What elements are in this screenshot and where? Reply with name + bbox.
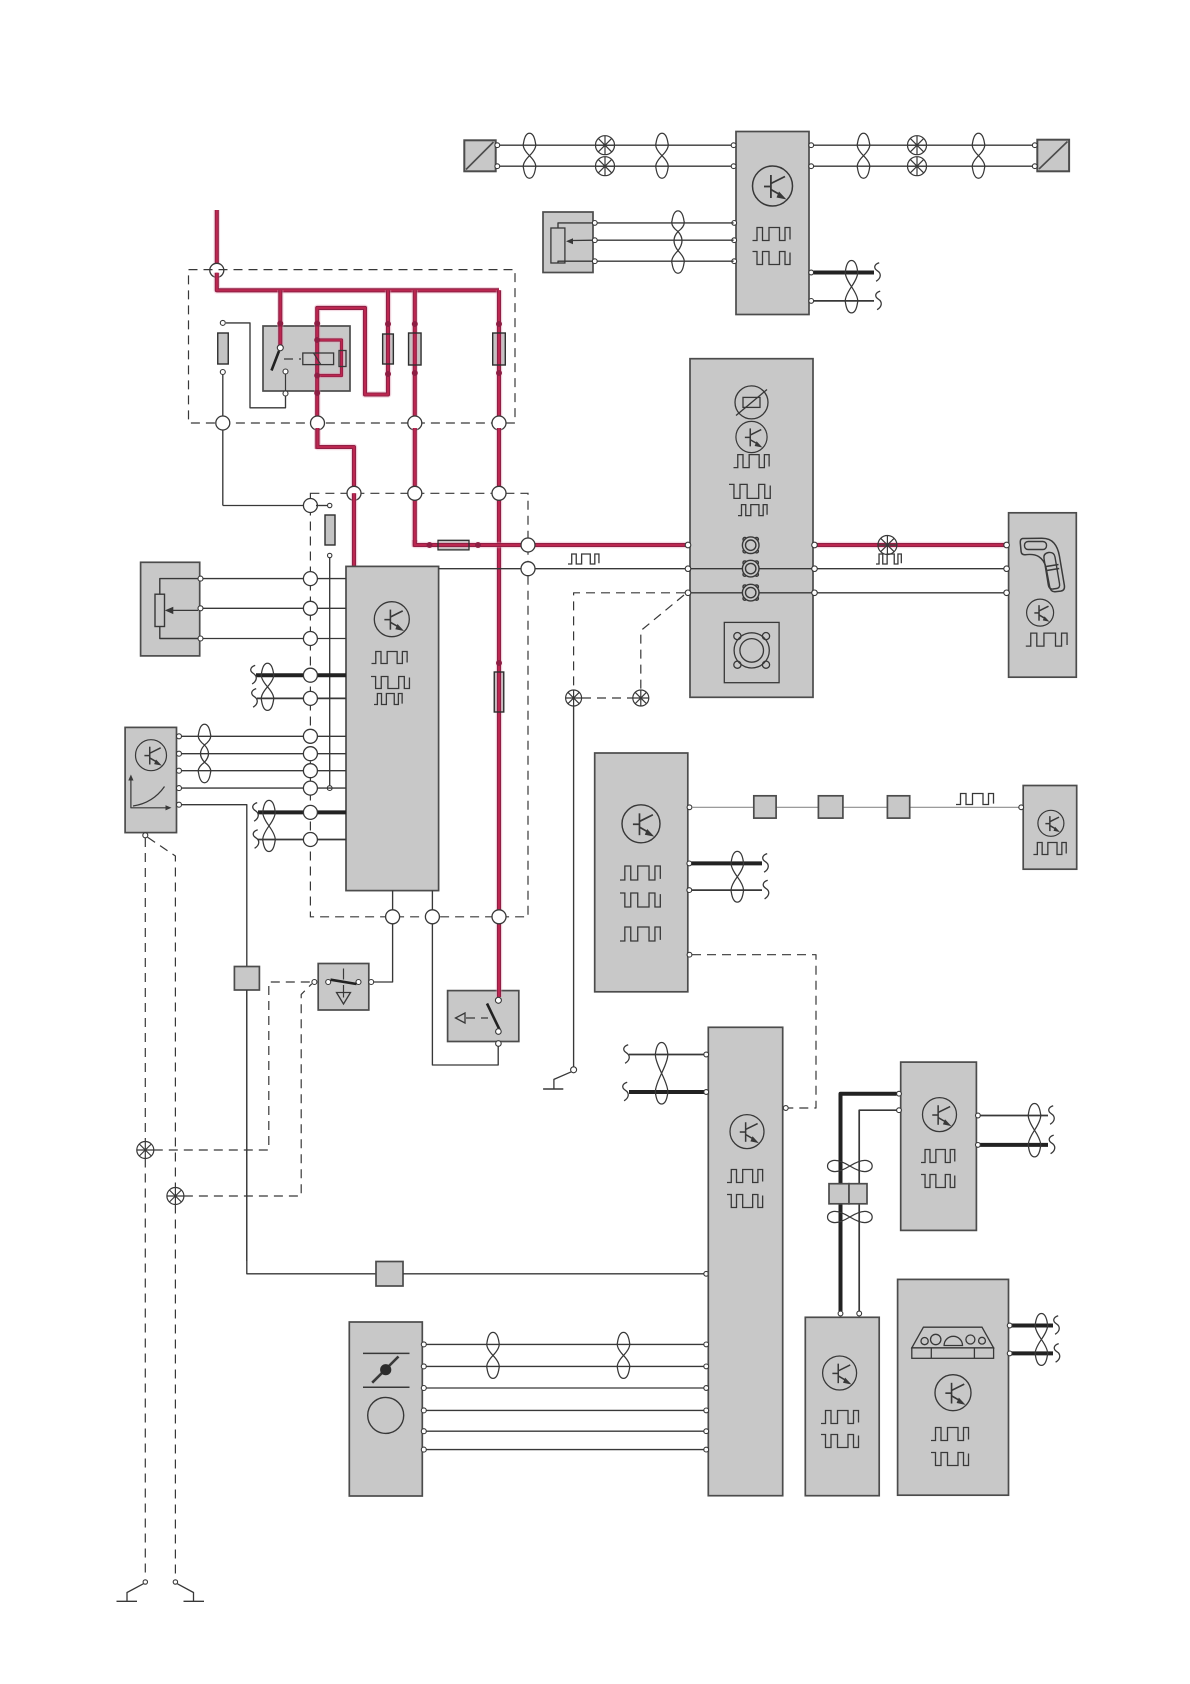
pins of M6 lower left: [704, 1342, 709, 1347]
potentiometer resistor of B1: [551, 228, 565, 263]
pulse train down of M6: [727, 1195, 763, 1208]
twisted-pair symbol: [655, 1043, 668, 1105]
three wires B2 to central module: [203, 578, 346, 580]
dashed branch from splice X3 to ground switch: [154, 982, 311, 1150]
node fuse F1 branch on harness left edge: [303, 499, 317, 513]
connector squares on signal wire: [754, 796, 776, 818]
central module bottom output 1: [392, 891, 394, 915]
cable break S: [623, 1082, 629, 1101]
top-left shield/antenna terminator square: [464, 140, 495, 171]
pins into M8: [838, 1311, 843, 1316]
pulse train 3 of central module: [374, 694, 402, 705]
transistor symbol of central module: [374, 602, 409, 637]
instrument cluster icon: [912, 1327, 994, 1358]
node harness bottom edge 1: [386, 910, 400, 924]
pulse train up of M7: [921, 1150, 955, 1163]
pulse train down of module A: [753, 252, 791, 265]
dashed wire M5 to rear module: [692, 955, 816, 1108]
fuse F4 on red branch: [493, 333, 506, 365]
node harness bottom edge red: [492, 910, 506, 924]
pulse train down of M9: [931, 1453, 969, 1466]
screened cable pair from module A lower right: [814, 271, 874, 275]
harness boundary box 2 (dashed): [310, 493, 528, 917]
screened pair M7 right: [979, 1115, 1048, 1117]
rear electronic module M6: [708, 1027, 782, 1495]
pins of left terminator: [495, 143, 500, 148]
lamp/splice symbol on red bus: [878, 536, 897, 555]
splice symbol X1: [566, 690, 582, 706]
cable break S: [253, 830, 259, 849]
wire node1 to ground switch S1: [374, 924, 393, 982]
control module A (top): [736, 132, 809, 315]
transistor symbol of module A: [753, 166, 793, 206]
pulse train up of M8: [821, 1411, 859, 1424]
battery feed red wire entering top: [214, 210, 221, 268]
pulse train 2 of audio module: [729, 484, 770, 498]
chassis ground 2: [173, 1580, 177, 1584]
inline fuse on red bus: [438, 540, 469, 550]
fuse F5: [325, 515, 335, 545]
node on harness right edge 2: [521, 562, 535, 576]
cable break S wire 1: [875, 263, 881, 282]
node at fuse box bottom wire 2 (red): [311, 416, 325, 430]
twisted-pair symbol on B4 wires: [487, 1332, 500, 1378]
wire audio to gear selector 3: [815, 592, 1006, 594]
wiper arrow of B2: [172, 609, 198, 611]
alarm siren module M5: [595, 753, 688, 992]
connector squares on vertical pair: [829, 1184, 849, 1204]
twisted-pair symbol: [523, 133, 536, 178]
pins of B2: [198, 576, 203, 581]
wires B3 to central module: [182, 735, 347, 737]
relay coil: [303, 353, 334, 365]
graph axes icon of B3: [131, 778, 168, 808]
wire audio to gear selector 2: [439, 568, 688, 570]
transistor symbol of M6: [730, 1115, 764, 1149]
inline fuse bed: [494, 672, 504, 712]
dimmer icon of B4: [363, 1352, 410, 1354]
splice symbol X2: [633, 690, 649, 706]
red junction dots in fuse box: [277, 321, 283, 327]
red dot above inline fuse: [496, 660, 502, 666]
receiver module M5b: [1023, 786, 1076, 870]
twisted three-wire symbol: [672, 211, 685, 273]
wire B3 pin5 to connector and floor harness: [182, 805, 247, 1261]
pulse train down of M8: [821, 1435, 859, 1448]
transistor symbol of M9: [935, 1375, 971, 1411]
dashed ground net from B3 via splice: [144, 838, 146, 1141]
chassis ground 1: [143, 1580, 147, 1584]
cable break S: [763, 854, 769, 873]
node on harness box top edge red 2: [408, 486, 422, 500]
pins of right terminator: [1032, 143, 1037, 148]
pins of fuse F1: [220, 320, 225, 325]
pulse train down of M7: [921, 1175, 955, 1188]
pins of S2: [496, 1029, 502, 1035]
relay switch pin: [277, 345, 283, 351]
lamp module M8: [805, 1317, 879, 1495]
dashed ground net 2 from B3: [148, 837, 176, 1187]
transistor symbol of B3: [136, 740, 167, 771]
pin at B3 bottom: [143, 833, 148, 838]
wiper arrow of B1: [566, 238, 573, 244]
fuse F3 on red branch: [409, 333, 422, 365]
cable break S: [1049, 1135, 1055, 1154]
ground arrow of switch: [337, 993, 351, 1005]
top-right shield/antenna terminator square: [1037, 140, 1069, 172]
connector C1 on floor harness wire: [234, 967, 259, 991]
red feed rail in fuse box: [217, 273, 499, 291]
instrument cluster module M9: [898, 1279, 1009, 1495]
twisted-pair symbol: [845, 261, 858, 313]
cable break S: [1054, 1316, 1060, 1335]
pins of audio module: [685, 542, 691, 548]
twisted-pair symbol: [656, 133, 669, 178]
relay output wire to fuse F1: [285, 374, 287, 391]
dashed net from audio module pin 3: [574, 593, 685, 690]
red branch to relay switch: [277, 290, 284, 346]
pulse train 2 of M5: [620, 893, 660, 907]
pulse glyph on wire left of audio module: [568, 554, 599, 564]
side module M7: [901, 1062, 977, 1230]
pins of B4: [421, 1342, 426, 1347]
potentiometer sensor B2: [141, 562, 200, 656]
thick wire M7 down to M8: [841, 1094, 897, 1311]
thin wire fuse F1 to harness box: [222, 430, 224, 506]
red dots at inline fuse: [427, 542, 433, 548]
inline fuse bed on red bus: [438, 540, 469, 550]
splice X4: [167, 1188, 184, 1205]
cable break S: [253, 803, 259, 822]
heater/antenna symbol of audio module: [735, 386, 768, 419]
thin wire M7 down to M8: [859, 1110, 896, 1311]
twisted-pair symbol: [261, 663, 274, 710]
red wire fuse3 down to harness box: [412, 428, 419, 547]
resistor of B2: [155, 594, 165, 626]
door contact pin: [571, 1067, 577, 1073]
acceleration sensor B3: [125, 727, 176, 832]
pulse train up of module A: [753, 228, 791, 241]
screened pair M9 right: [1011, 1324, 1053, 1328]
fuse/relay box boundary (dashed): [189, 270, 516, 423]
node harness bottom edge 2: [425, 910, 439, 924]
wire C2 to rear module: [403, 1273, 706, 1275]
cable break S: [763, 880, 769, 899]
ground switch S1 box: [318, 964, 369, 1011]
headlamp levelling sensor B4: [349, 1322, 422, 1496]
stub to fuse F5: [316, 505, 330, 507]
pulse train up of M6: [727, 1170, 763, 1183]
pulse train 1 of audio module: [734, 455, 770, 468]
cable break S: [1054, 1344, 1060, 1363]
six wires B4 to rear module M6: [426, 1343, 705, 1345]
twisted-pair symbol: [1035, 1314, 1048, 1366]
screened pair from M5: [692, 861, 763, 865]
pin below fuse F5: [328, 553, 332, 557]
pulse glyph on wire right of audio module: [876, 554, 901, 564]
cable break S: [251, 665, 257, 684]
pin of receiver: [1019, 805, 1024, 810]
twisted-pair symbol: [731, 851, 744, 902]
pulse train up of central module: [372, 652, 408, 664]
hood switch S2 box: [448, 991, 519, 1042]
red wire into central module top: [351, 493, 358, 567]
pulse train of receiver: [1033, 843, 1066, 855]
wire node2 to hood switch S2: [432, 924, 498, 1065]
lamp/splice symbol on wire 2: [908, 157, 927, 176]
transistor symbol of M8: [823, 1356, 857, 1390]
internal wiring of B1: [558, 223, 595, 228]
twisted three-wire symbol: [198, 724, 211, 782]
cable break S wire 2: [876, 291, 882, 310]
node on harness box top edge red 1: [347, 486, 361, 500]
pins of M7 right: [976, 1113, 981, 1118]
door contact ground: [554, 1072, 571, 1089]
nodes on harness edge for B2 wires: [303, 572, 317, 586]
lamp/splice symbol on wire 2: [596, 157, 615, 176]
actuation arrow of S2: [456, 1013, 466, 1023]
relay switch blade: [272, 351, 280, 371]
twisted-pair symbol: [263, 800, 276, 851]
fuse beds under red branches: [383, 334, 394, 364]
nodes on harness edge for screened pair: [303, 668, 317, 682]
twisted-pair symbol on B4 wires 2: [617, 1332, 630, 1378]
red wire fuse4 down through harness box: [496, 428, 503, 670]
red branch through fuse 2: [317, 290, 388, 394]
connector C2 on floor harness wire: [376, 1262, 403, 1287]
pins of B3: [177, 734, 182, 739]
cable break S: [624, 1045, 630, 1064]
wire splice X1 to door contact: [573, 706, 575, 1067]
pins of M5: [687, 805, 692, 810]
three-wire harness B1 to module A: [597, 222, 733, 224]
twisted-pair symbol: [857, 133, 870, 178]
pins of M5 screened pair: [687, 861, 692, 866]
cable break S: [252, 689, 258, 708]
transistor symbol of receiver: [1038, 810, 1064, 836]
red wire to hood switch: [496, 670, 503, 997]
speaker symbol of audio module: [724, 622, 779, 682]
red branch through fuse 4: [496, 290, 503, 425]
sensor B1 with potentiometer (top): [543, 212, 593, 273]
node at fuse box bottom wire 1: [216, 416, 230, 430]
relay output pin below box: [283, 391, 288, 396]
gear selector module: [1009, 513, 1077, 677]
relay coil loop red wiring: [317, 340, 341, 376]
transistor symbol of M7: [923, 1098, 957, 1132]
red branch through fuse 3: [412, 290, 419, 425]
knob icon of B4: [368, 1397, 404, 1433]
pulse train 1 of M5: [620, 866, 660, 880]
pins of M9 right: [1007, 1323, 1012, 1328]
transistor symbol of M5: [622, 805, 660, 843]
wire fuse F1 down to node: [222, 375, 224, 421]
dashed branch from splice X4 to ground switch: [184, 984, 312, 1196]
nodes on harness edge lower screened pair: [303, 805, 317, 819]
transistor symbol of gear selector: [1027, 599, 1054, 626]
central control module (driver door): [346, 566, 439, 890]
wire pair module A to right terminator: [814, 144, 1035, 146]
screened pair into M6 upper left: [629, 1054, 706, 1056]
twisted-pair symbol vertical run 2: [828, 1211, 873, 1222]
central module bottom output 2: [431, 891, 433, 915]
node on harness right edge: [521, 538, 535, 552]
node at fuse box bottom wire 4 (red): [492, 416, 506, 430]
wire fuse F5 down to sensor wire: [329, 558, 331, 788]
audio module (centre): [690, 359, 813, 698]
pulse train 3 of audio module: [738, 505, 767, 516]
node on harness box top edge red 3: [492, 486, 506, 500]
relay output pin inside: [283, 369, 288, 374]
lamp/splice symbol on wire 1: [908, 136, 927, 155]
cable break S: [1049, 1106, 1055, 1125]
red bus to door module: [415, 540, 1006, 545]
internal wiring of B2: [160, 579, 198, 595]
fuse F2 on red branch: [383, 334, 394, 364]
pulse train of gear selector: [1026, 633, 1067, 646]
node at fuse box bottom wire 3 (red): [408, 416, 422, 430]
pins of ground switch: [312, 980, 317, 985]
pins of gear selector: [1004, 542, 1010, 548]
screened pair lower left of central module: [258, 810, 346, 814]
relay actuation dashed link: [284, 358, 301, 360]
red end pin into S2: [495, 997, 501, 1003]
floor harness wire continues: [247, 990, 376, 1274]
pins of M6 left: [704, 1052, 709, 1057]
junction node on fuse box boundary: [210, 263, 224, 277]
splice X3: [137, 1142, 154, 1159]
blade of ground switch: [331, 980, 357, 984]
twisted-pair symbol vertical run 1: [828, 1160, 873, 1171]
signal wire M5 to receiver: [692, 806, 1021, 808]
gear lever icon: [1020, 538, 1064, 592]
pulse train down of central module: [371, 677, 409, 689]
transistor symbol of audio module: [736, 421, 767, 452]
lamp/splice symbol on wire 1: [596, 136, 615, 155]
wire pair left terminator to control module A: [500, 144, 734, 146]
fuse F1: [218, 333, 229, 364]
pulse train 3 of M5: [620, 927, 660, 941]
wire segment 3 inside audio module: [690, 592, 813, 594]
pins of B1: [592, 221, 597, 226]
pulse train up of M9: [931, 1428, 969, 1441]
relay series resistor: [339, 351, 346, 367]
inline fuse on red branch: [494, 672, 504, 712]
nodes on harness edge for B3 wires: [303, 729, 317, 743]
relay K1 box: [263, 326, 350, 391]
pulse glyph on signal wire: [956, 794, 994, 805]
pins of module A: [731, 143, 736, 148]
blade of S2: [487, 1004, 500, 1030]
stem of ground switch: [343, 969, 345, 980]
ring connector symbols on audio module wires: [742, 537, 759, 554]
red jog from relay output down to harness box: [318, 428, 355, 495]
pins of M7 left: [897, 1091, 902, 1096]
twisted-pair symbol: [1028, 1104, 1041, 1157]
twisted-pair symbol: [972, 133, 985, 178]
screened pair upper left of central module: [256, 673, 346, 677]
